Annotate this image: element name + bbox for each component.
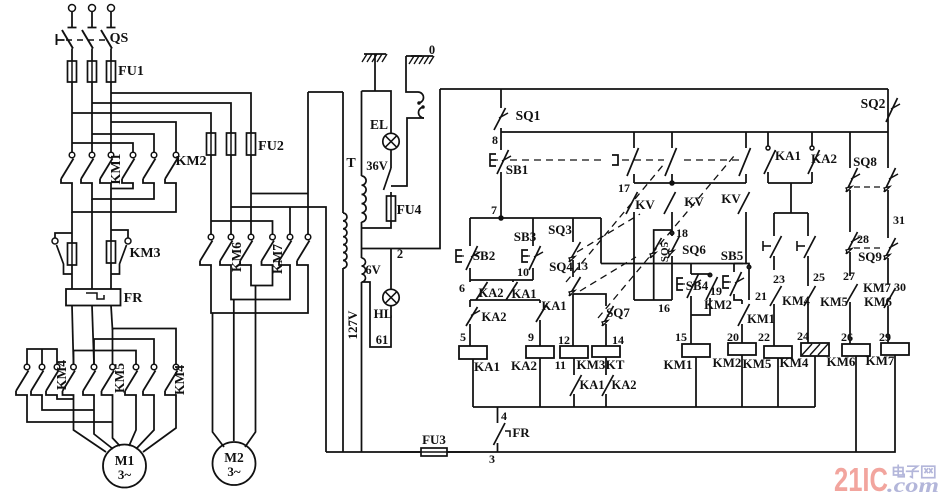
wire KM5 coil down xyxy=(777,358,779,407)
contactor KM2 pole2 xyxy=(151,152,157,158)
wire node17 rail xyxy=(634,182,746,184)
wire FR down 3 xyxy=(111,306,113,331)
mech linkage diagonal 2 xyxy=(598,156,734,318)
mech linkage diagonal 4 xyxy=(580,257,636,291)
wire node8 rail xyxy=(501,131,888,133)
svg-text:3~: 3~ xyxy=(227,464,241,479)
contact KA2 nc xyxy=(469,280,471,282)
wire phase1 xyxy=(71,82,73,152)
wire KM6p1-KM7p3 link xyxy=(211,267,308,313)
limit switch SQ4 xyxy=(569,277,581,296)
linked switch b xyxy=(671,132,673,148)
svg-text:8: 8 xyxy=(492,133,498,147)
svg-text:QS: QS xyxy=(110,31,129,46)
contact KM1 aux xyxy=(741,300,743,304)
svg-text:16: 16 xyxy=(658,301,670,315)
relay coil KM3 xyxy=(560,346,588,358)
relay coil KA1 xyxy=(459,346,487,359)
svg-text:23: 23 xyxy=(773,272,785,286)
contact KV 3 xyxy=(738,192,750,214)
wire KM7 coil down xyxy=(890,355,895,452)
limit switch SQ9 b xyxy=(884,238,896,260)
wire KM1p1-KM2p3 link xyxy=(72,185,176,212)
contact KA1 no b xyxy=(539,300,541,303)
contactor KM7 pole2 xyxy=(287,234,293,240)
svg-text:11: 11 xyxy=(555,358,566,372)
contactor KM5 pole1 xyxy=(71,364,77,370)
limit switch SQ7 xyxy=(602,306,614,326)
contact KV 1 xyxy=(626,192,638,214)
contact KM7 nc xyxy=(846,284,858,304)
contactor KM5 pole2 xyxy=(91,364,97,370)
wire KM4L feed bar xyxy=(27,349,57,364)
wire tap KM7 pole2 xyxy=(289,207,291,234)
wire phase3 xyxy=(110,82,112,152)
svg-text:6V: 6V xyxy=(365,263,380,277)
contact KT a xyxy=(773,213,775,236)
wire node7 rail xyxy=(470,217,601,219)
wire FU2c down xyxy=(250,155,252,234)
cam switch SQ5 xyxy=(650,238,662,258)
wire star link a xyxy=(57,397,74,399)
wire to KM1 coil xyxy=(690,315,692,344)
thermal contact FR xyxy=(494,423,506,445)
svg-text:KM4: KM4 xyxy=(172,365,187,395)
wire M1 lead4 xyxy=(129,397,136,446)
transformer secondary 6V winding xyxy=(362,258,366,282)
terminal L2 xyxy=(89,5,96,12)
fuse FU4 xyxy=(390,196,392,221)
wire parallel top a xyxy=(470,279,513,281)
wire phase1 cont xyxy=(73,351,75,365)
contact KA1 aux xyxy=(767,132,769,146)
contactor coil KM7 xyxy=(881,343,909,355)
relay coil KA2 xyxy=(526,346,554,358)
svg-text:3: 3 xyxy=(489,452,495,466)
svg-text:KM2: KM2 xyxy=(713,355,742,370)
contactor KM3 bypass contact left xyxy=(55,233,72,238)
svg-text:M1: M1 xyxy=(115,453,135,468)
svg-text:SB5: SB5 xyxy=(721,248,744,263)
contactor KM4R pole2 xyxy=(151,364,157,370)
resistor R-start1 xyxy=(71,243,73,265)
wire KM4 coil down xyxy=(814,356,816,407)
wire ka pair join xyxy=(768,182,812,184)
wire down line1 xyxy=(71,212,73,289)
fuse FU1 xyxy=(71,61,73,82)
linkage bracket xyxy=(612,155,618,165)
wire node7 ext down xyxy=(600,218,602,264)
svg-text:6: 6 xyxy=(459,281,465,295)
svg-text:KV: KV xyxy=(721,191,741,206)
svg-text:KM3: KM3 xyxy=(577,357,606,372)
contact KA2 aux xyxy=(811,132,813,146)
transformer secondary 36V winding xyxy=(361,91,363,176)
svg-text:KM5: KM5 xyxy=(112,363,127,393)
svg-text:KM7: KM7 xyxy=(863,281,891,295)
svg-text:KM2: KM2 xyxy=(175,154,206,169)
wire SQ4 to SQ7 xyxy=(573,294,606,306)
limit switch SQ1 xyxy=(500,89,502,108)
wire M1 lead3 xyxy=(113,397,121,446)
wire star link b xyxy=(42,397,94,410)
thermal relay FR xyxy=(66,289,121,306)
svg-text:SQ6: SQ6 xyxy=(682,242,706,257)
svg-text:22: 22 xyxy=(758,330,770,344)
wire plug down xyxy=(391,118,424,186)
wire tap to KM4R pole3 xyxy=(113,329,177,365)
svg-text:FU2: FU2 xyxy=(258,139,284,154)
wire EL return xyxy=(362,221,392,228)
wire KM1p2-KM2p2 link xyxy=(92,185,154,199)
wire tap to KM4R pole1 xyxy=(74,351,137,365)
mech linkage diagonal 1 xyxy=(566,164,664,282)
wire parallel bottom xyxy=(470,299,540,301)
svg-text:KA2: KA2 xyxy=(511,358,537,373)
wire tap L2 to KM2 pole2 xyxy=(92,134,154,152)
wire M1 lead6 xyxy=(143,397,176,452)
cam switch SQ6 xyxy=(671,230,673,236)
svg-text:KM7: KM7 xyxy=(866,353,895,368)
wire tap to KM4R pole2 xyxy=(94,339,154,364)
contact KV 2 xyxy=(664,192,676,214)
svg-text:SQ7: SQ7 xyxy=(606,305,630,320)
svg-text:KA1: KA1 xyxy=(542,299,567,313)
svg-text:KA1: KA1 xyxy=(580,378,605,392)
wire KM1p3-KM2p1 link xyxy=(111,185,133,189)
svg-text:KA1: KA1 xyxy=(512,287,537,301)
wire M2 lead3 xyxy=(245,286,256,448)
wire sb5 alt xyxy=(734,264,749,301)
timer coil KM4 xyxy=(801,343,829,356)
contactor KM6 pole3 xyxy=(248,234,254,240)
ground 1 xyxy=(374,54,376,91)
limit switch SQ2 xyxy=(887,89,889,132)
linked switch a xyxy=(633,132,635,148)
contactor coil KM2 xyxy=(728,343,756,355)
resistor R-start2 xyxy=(110,241,112,263)
transformer T primary winding xyxy=(342,92,344,213)
contactor coil KM1 xyxy=(682,344,710,357)
svg-text:SQ2: SQ2 xyxy=(861,96,886,111)
svg-text:10: 10 xyxy=(517,265,529,279)
wire KM7 pole3 feed xyxy=(307,194,309,235)
wire FR down 2 xyxy=(92,306,94,365)
wire KM2 coil down xyxy=(741,355,743,407)
watermark dianziwang xyxy=(894,465,935,478)
wire phase3 cont xyxy=(112,329,114,365)
contactor KM1 pole1 xyxy=(69,152,75,158)
svg-text:9: 9 xyxy=(528,330,534,344)
wire tap to transformer a xyxy=(251,193,308,195)
fuse FU2 xyxy=(210,133,212,155)
wire tap L2 to FU2b xyxy=(92,103,231,133)
wire KA1 coil down xyxy=(472,359,474,407)
wire M1 lead1 xyxy=(74,397,107,452)
contactor KM7 pole3 xyxy=(305,234,311,240)
linkage dashes 3 xyxy=(684,159,740,161)
svg-text:KM5: KM5 xyxy=(743,356,772,371)
svg-text:KA2: KA2 xyxy=(479,286,504,300)
node 4 xyxy=(497,407,499,423)
wire M2 lead2 xyxy=(233,300,235,442)
svg-text:0: 0 xyxy=(429,43,435,57)
svg-text:KM6: KM6 xyxy=(864,295,892,309)
svg-text:KM2: KM2 xyxy=(704,298,732,312)
linkage SQ8 xyxy=(854,186,884,188)
wire tap L1 to FU2a xyxy=(72,113,211,133)
linkage dashes 2 xyxy=(622,159,664,161)
wire primary left leg note xyxy=(307,92,309,194)
svg-text:SQ3: SQ3 xyxy=(548,222,572,237)
contactor KM2 pole1 xyxy=(130,152,136,158)
terminal L3 xyxy=(108,5,115,12)
pushbutton SB3 xyxy=(532,218,534,246)
limit switch SQ8 a xyxy=(849,132,851,168)
svg-text:KA2: KA2 xyxy=(612,378,637,392)
wire KM1 coil down xyxy=(695,357,697,407)
svg-text:T: T xyxy=(346,156,356,171)
wire star link c xyxy=(27,397,113,422)
contactor KM4L pole3 xyxy=(54,364,60,370)
wire FR down 1 xyxy=(72,306,74,365)
node 7 xyxy=(499,216,503,220)
svg-text:KV: KV xyxy=(635,197,655,212)
wire KM6p3-KM7p1 link xyxy=(251,267,273,286)
contactor KM7 pole1 xyxy=(270,234,276,240)
svg-text:19: 19 xyxy=(710,284,722,298)
wire ground0 to plug xyxy=(406,55,422,57)
svg-text:26: 26 xyxy=(841,330,853,344)
contactor coil KM5 xyxy=(764,346,792,358)
svg-text:KM1: KM1 xyxy=(664,357,693,372)
svg-text:SQ4: SQ4 xyxy=(549,259,573,274)
contactor coil KM6 xyxy=(842,344,870,356)
contact KT b xyxy=(807,213,809,236)
svg-text:SQ1: SQ1 xyxy=(516,108,541,123)
svg-text:KM1: KM1 xyxy=(747,312,775,326)
pushbutton SB4 xyxy=(690,264,692,275)
plug connector X1 xyxy=(418,92,424,103)
wire phase2 cont xyxy=(93,339,95,364)
contact KM2 aux xyxy=(691,274,710,277)
lamp EL branch xyxy=(362,91,392,133)
svg-text:29: 29 xyxy=(879,330,891,344)
svg-text:4: 4 xyxy=(501,409,507,423)
contact KA1 no xyxy=(512,280,514,282)
svg-text:18: 18 xyxy=(676,226,688,240)
svg-text:KA2: KA2 xyxy=(482,310,507,324)
pushbutton SB2 xyxy=(469,218,471,246)
wire tap L1 to KM2 pole1 xyxy=(72,143,133,152)
linked switch c xyxy=(745,132,747,148)
svg-text:3~: 3~ xyxy=(118,467,132,482)
terminal L1 xyxy=(69,5,76,12)
svg-text:KA1: KA1 xyxy=(775,148,801,163)
svg-text:KA2: KA2 xyxy=(811,151,837,166)
svg-text:M2: M2 xyxy=(224,450,244,465)
wire bottom rail xyxy=(326,451,421,453)
svg-text:SQ9: SQ9 xyxy=(858,249,882,264)
wire mid rail 263 xyxy=(601,263,743,265)
svg-text:KM5: KM5 xyxy=(820,295,848,309)
contact KM4 aux xyxy=(770,286,782,306)
wire node16 link xyxy=(634,299,672,301)
svg-text:FU1: FU1 xyxy=(118,64,144,79)
wire control feed xyxy=(362,89,441,249)
wire KM6 coil down xyxy=(855,356,857,452)
contact KA2 under KT xyxy=(605,357,607,375)
fuse FU3 xyxy=(400,451,470,453)
svg-text:17: 17 xyxy=(618,181,630,195)
svg-text:SB4: SB4 xyxy=(686,278,709,293)
svg-text:KM6: KM6 xyxy=(827,354,856,369)
svg-text:14: 14 xyxy=(612,333,624,347)
svg-text:15: 15 xyxy=(675,330,687,344)
pushbutton SB1 xyxy=(500,132,502,150)
contact KM5 aux xyxy=(807,270,809,286)
wire tap to KM7 pole1 xyxy=(211,221,273,234)
contactor KM2 pole3 xyxy=(173,152,179,158)
svg-text:30: 30 xyxy=(894,280,906,294)
svg-text:21: 21 xyxy=(755,289,767,303)
svg-text:SQ8: SQ8 xyxy=(853,154,877,169)
lamp HL xyxy=(383,289,399,305)
wire tap to transformer b xyxy=(231,207,326,452)
contactor KM4L pole2 xyxy=(39,364,45,370)
box SQ5 SQ6 xyxy=(654,230,672,300)
svg-text:FU4: FU4 xyxy=(397,202,422,217)
svg-text:5: 5 xyxy=(460,330,466,344)
switch S-EL xyxy=(390,150,392,168)
svg-text:SB3: SB3 xyxy=(514,229,537,244)
wire KA2 coil down xyxy=(539,358,541,407)
svg-text:KT: KT xyxy=(606,357,625,372)
svg-text:FR: FR xyxy=(124,291,144,306)
svg-text:36V: 36V xyxy=(366,159,388,173)
wire M1 lead5 xyxy=(136,397,154,449)
svg-text:61: 61 xyxy=(376,333,389,347)
svg-text:24: 24 xyxy=(797,329,809,343)
svg-text:127V: 127V xyxy=(345,310,360,340)
svg-text:KM3: KM3 xyxy=(129,246,160,261)
wire phase2 xyxy=(91,82,93,152)
lamp EL xyxy=(383,133,399,149)
limit switch SQ3 xyxy=(572,218,574,242)
wire ka split xyxy=(774,212,808,214)
contactor KM4L pole1 xyxy=(24,364,30,370)
wire down line2 xyxy=(91,199,93,289)
svg-text:EL: EL xyxy=(370,117,388,132)
wire tap L3 to KM2 pole3 xyxy=(111,122,176,152)
contact KA1 under KM3 xyxy=(573,358,575,375)
contactor KM4R pole3 xyxy=(173,364,179,370)
wire KM6p2-KM7p2 link xyxy=(231,267,290,300)
svg-text:21IC: 21IC xyxy=(834,461,888,498)
wire down line3 xyxy=(110,189,112,290)
svg-text:SB1: SB1 xyxy=(506,162,528,177)
wire coil common rail xyxy=(473,406,815,408)
limit switch SQ9 a xyxy=(846,232,858,254)
svg-text:31: 31 xyxy=(893,213,905,227)
svg-text:28: 28 xyxy=(857,232,869,246)
svg-text:25: 25 xyxy=(813,270,825,284)
mech linkage diagonal 3 xyxy=(577,214,640,252)
wire top rail xyxy=(440,88,888,90)
wire tap L3 to FU2c xyxy=(111,93,251,133)
contact KM6 nc xyxy=(884,288,896,308)
contactor KM4R pole1 xyxy=(133,364,139,370)
svg-text:FU3: FU3 xyxy=(422,432,446,447)
contactor KM3 bypass contact right xyxy=(111,230,128,238)
contactor KM6 pole1 xyxy=(208,234,214,240)
svg-text:KM4: KM4 xyxy=(780,355,809,370)
ground 0 xyxy=(411,55,433,57)
svg-text:7: 7 xyxy=(491,203,497,217)
wire HL loop xyxy=(362,282,392,347)
motor M2 xyxy=(213,442,256,485)
svg-text:KA1: KA1 xyxy=(474,359,500,374)
svg-text:HL: HL xyxy=(374,306,393,321)
contactor KM1 pole2 xyxy=(89,152,95,158)
motor M1 xyxy=(103,445,146,488)
svg-text:FR: FR xyxy=(512,425,530,440)
wire M1 lead2 xyxy=(94,397,113,449)
transformer primary bus xyxy=(308,91,343,93)
wire FU2a down xyxy=(210,155,212,234)
timer coil KT xyxy=(592,346,620,357)
svg-text:27: 27 xyxy=(843,269,855,283)
svg-text:13: 13 xyxy=(576,259,588,273)
contactor KM6 pole2 xyxy=(228,234,234,240)
switch QS xyxy=(62,30,73,49)
contact KA2 no xyxy=(476,282,488,300)
wire FU2b down xyxy=(230,155,232,234)
svg-text:SB2: SB2 xyxy=(473,248,495,263)
svg-text:12: 12 xyxy=(558,333,570,347)
wire M2 lead1 xyxy=(213,313,225,447)
pushbutton SB5 xyxy=(733,264,735,273)
contactor KM1 pole3 xyxy=(108,152,114,158)
linkage dashes SB1-KV xyxy=(510,159,606,161)
svg-text:KV: KV xyxy=(684,194,704,209)
svg-text:20: 20 xyxy=(727,330,739,344)
svg-text:.com: .com xyxy=(887,473,939,497)
lamp HL branch xyxy=(390,249,392,290)
contactor KM5 pole3 xyxy=(110,364,116,370)
linkage SQ9 xyxy=(854,247,884,249)
limit switch SQ8 b xyxy=(887,132,889,168)
